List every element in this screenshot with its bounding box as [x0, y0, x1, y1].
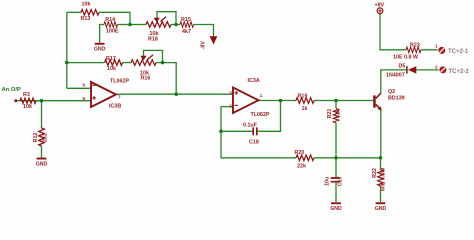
resistor R19 1k [296, 94, 314, 113]
connector pin TC+2-2 [435, 64, 469, 74]
wire R21 bottom to node X [335, 123, 337, 158]
resistor R17 10k [105, 56, 123, 72]
wire node B to pot R18 left [130, 24, 146, 26]
svg-text:R12: R12 [33, 133, 39, 143]
svg-text:C17: C17 [337, 176, 343, 186]
svg-text:R16: R16 [141, 75, 151, 81]
wire pot R16 wiper loop [144, 50, 163, 62]
svg-text:R23: R23 [410, 43, 420, 49]
svg-text:1: 1 [435, 43, 438, 48]
svg-text:10k: 10k [82, 2, 91, 8]
ground below R14 [94, 43, 106, 53]
wire R19 to base node to Q2 base [314, 100, 373, 102]
wire C17 to gnd [335, 182, 337, 202]
node feedback/lineA junction [174, 92, 178, 96]
svg-text:R13: R13 [81, 16, 91, 22]
svg-text:R17: R17 [106, 56, 116, 62]
wire IC3A pin2 to C18 left node [221, 107, 233, 132]
resistor R3 10k [20, 92, 36, 110]
svg-text:IC3B: IC3B [109, 104, 121, 110]
svg-text:TC+2-1: TC+2-1 [448, 49, 469, 55]
svg-text:-8V: -8V [200, 41, 206, 50]
wire Q2 emitter down to node Y [380, 110, 382, 158]
wire R14 right to node B [118, 24, 131, 26]
ground below R22 [375, 202, 387, 212]
resistor R22 60E 0.5W (vertical) [372, 167, 386, 191]
svg-text:0.1uF: 0.1uF [243, 123, 258, 129]
wire R13 left lead to top corner [67, 11, 81, 13]
svg-text:1k: 1k [302, 106, 308, 112]
svg-text:5: 5 [82, 96, 85, 101]
svg-text:D5: D5 [399, 63, 406, 69]
svg-text:7: 7 [118, 94, 121, 99]
node R13/R14 junction [128, 23, 132, 27]
wire D5 right to pin TC+2-2 [416, 69, 439, 71]
svg-text:R20: R20 [295, 150, 305, 156]
svg-text:BD139: BD139 [388, 96, 405, 102]
svg-text:An O/P: An O/P [2, 87, 21, 93]
node C18 left junction [219, 130, 223, 134]
svg-text:6: 6 [82, 83, 85, 88]
op-amp IC3B TL062P [82, 78, 129, 109]
transistor Q2 BD139 [373, 89, 404, 111]
wire IC3A output line to R19 [259, 100, 297, 102]
svg-text:1: 1 [260, 93, 263, 98]
resistor R20 22k [295, 150, 315, 169]
svg-text:10E 0.8 W: 10E 0.8 W [393, 55, 419, 61]
wire Q2 collector up to D5 row [381, 70, 407, 93]
wire R14 left lead to gnd stub [100, 25, 104, 43]
node row2 left junction [65, 61, 69, 65]
wire IC3B output to IC3A pin3 [116, 93, 233, 95]
resistor R12 2k2 (vertical) [33, 128, 48, 146]
wire C18 right up to line B [257, 101, 281, 132]
input pin dot [14, 99, 17, 102]
svg-text:2: 2 [435, 64, 438, 69]
wire R15 right to -8V corner [194, 25, 214, 38]
svg-text:2k2: 2k2 [42, 133, 48, 142]
wire IC3B pin6 input [67, 87, 91, 89]
svg-text:4k7: 4k7 [182, 29, 191, 35]
wire R23 right to pin TC+2-1 [421, 49, 438, 51]
node X junction [334, 156, 338, 160]
svg-text:1N4007: 1N4007 [386, 73, 405, 79]
wire C18 left [221, 130, 253, 132]
wire row2 left junction to R17 [67, 62, 105, 64]
svg-text:100E: 100E [106, 28, 119, 34]
svg-text:C18: C18 [249, 139, 259, 145]
resistor R13 10k [81, 2, 100, 22]
wire +8V down to R23 row [380, 14, 406, 50]
svg-text:TC+2-2: TC+2-2 [449, 69, 470, 75]
supply -8V arrow [200, 36, 217, 49]
svg-text:R15: R15 [181, 17, 191, 23]
capacitor C18 0.1uF [243, 123, 259, 146]
svg-text:IC3A: IC3A [248, 78, 260, 84]
svg-text:Q2: Q2 [388, 89, 395, 95]
svg-text:R14: R14 [105, 17, 115, 23]
wire left feedback vertical [66, 12, 68, 88]
resistor R21 47k (vertical) [327, 109, 342, 123]
wire pot R16 right to feedback corner [156, 63, 176, 95]
node R21/base junction [334, 99, 338, 103]
supply +8V [375, 3, 385, 14]
svg-text:10k: 10k [107, 66, 116, 72]
diode D5 1N4007 [386, 63, 416, 78]
node pot R16 loop junction [161, 61, 165, 65]
potentiometer R16 10k [131, 55, 156, 82]
svg-text:R3: R3 [23, 92, 30, 98]
wire R3 node down to R12 [41, 101, 43, 128]
capacitor C17 10u (vertical) [325, 176, 344, 186]
svg-text:+8V: +8V [375, 3, 385, 9]
wire R21 node down [335, 101, 337, 109]
svg-text:3: 3 [229, 90, 232, 95]
wire node X to C17 [335, 158, 337, 178]
connector pin TC+2-1 [435, 43, 469, 55]
wire R3 left stub [36, 100, 42, 102]
ground below R12 [36, 158, 48, 168]
wire R12 to gnd [41, 146, 43, 157]
svg-text:R19: R19 [298, 94, 308, 100]
svg-text:10k: 10k [23, 104, 32, 110]
wire pot R18 wiper loop [157, 12, 176, 25]
node Y junction [379, 156, 383, 160]
svg-text:TL062P: TL062P [110, 78, 129, 84]
node C18/lineB junction [279, 99, 283, 103]
resistor R14 100E [104, 17, 119, 34]
wire R22 to gnd [380, 186, 382, 202]
svg-text:TL062P: TL062P [251, 112, 270, 118]
svg-text:R22: R22 [372, 168, 378, 178]
op-amp IC3A TL062P [229, 78, 270, 118]
wire R20 right to node X to node Y [314, 157, 381, 159]
wire node Y down to R22 [380, 158, 382, 170]
wire pot R18 right to R15 [171, 24, 180, 26]
wire R13 right to drop [99, 12, 130, 24]
svg-text:R18: R18 [148, 37, 158, 43]
svg-text:60E 0.5W: 60E 0.5W [380, 167, 386, 191]
wire C18 node down to bottom row [221, 131, 296, 158]
svg-text:2: 2 [229, 104, 232, 109]
svg-text:47k: 47k [336, 109, 342, 118]
svg-text:22k: 22k [297, 163, 306, 169]
node pot R18 loop junction [174, 23, 178, 27]
svg-text:10u: 10u [325, 177, 331, 186]
resistor R15 4k7 [180, 17, 194, 35]
svg-text:R21: R21 [327, 109, 333, 119]
wire R17 to pot R16 [123, 62, 132, 64]
wire input node to IC3B pin5 [16, 100, 91, 102]
node R3/R12 junction [40, 99, 44, 103]
ground below C17 [330, 202, 342, 212]
potentiometer R18 10k [146, 17, 171, 43]
resistor R23 10E 0.8 W [393, 43, 421, 61]
